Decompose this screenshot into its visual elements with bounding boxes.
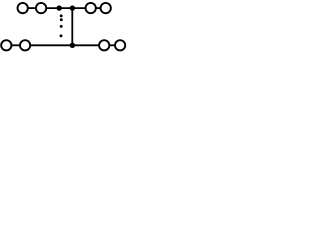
terminal contact circle A4 [101, 3, 111, 13]
wire: bottom bus [30, 44, 99, 46]
terminal contact circle B2 [20, 40, 30, 50]
wire: bottom-right pair connector [109, 44, 115, 46]
wire: bottom-left pair connector [11, 44, 20, 46]
terminal contact circle B1 [1, 40, 11, 50]
wire: top-left pair connector [28, 7, 36, 9]
wire: top-right pair connector [96, 7, 101, 9]
terminal contact circle B3 [99, 40, 109, 50]
terminal contact circle B4 [115, 40, 125, 50]
terminal contact circle A1 [18, 3, 28, 13]
dotted bridge option line [60, 14, 63, 37]
terminal contact circle A3 [86, 3, 96, 13]
wire: vertical link between buses [71, 8, 73, 45]
terminal contact circle A2 [36, 3, 46, 13]
node: junction of vertical link on top bus [70, 5, 75, 10]
wire: top bus [46, 7, 85, 9]
node: junction of dotted branch on top bus [57, 5, 62, 10]
node: junction of vertical link on bottom bus [70, 43, 75, 48]
